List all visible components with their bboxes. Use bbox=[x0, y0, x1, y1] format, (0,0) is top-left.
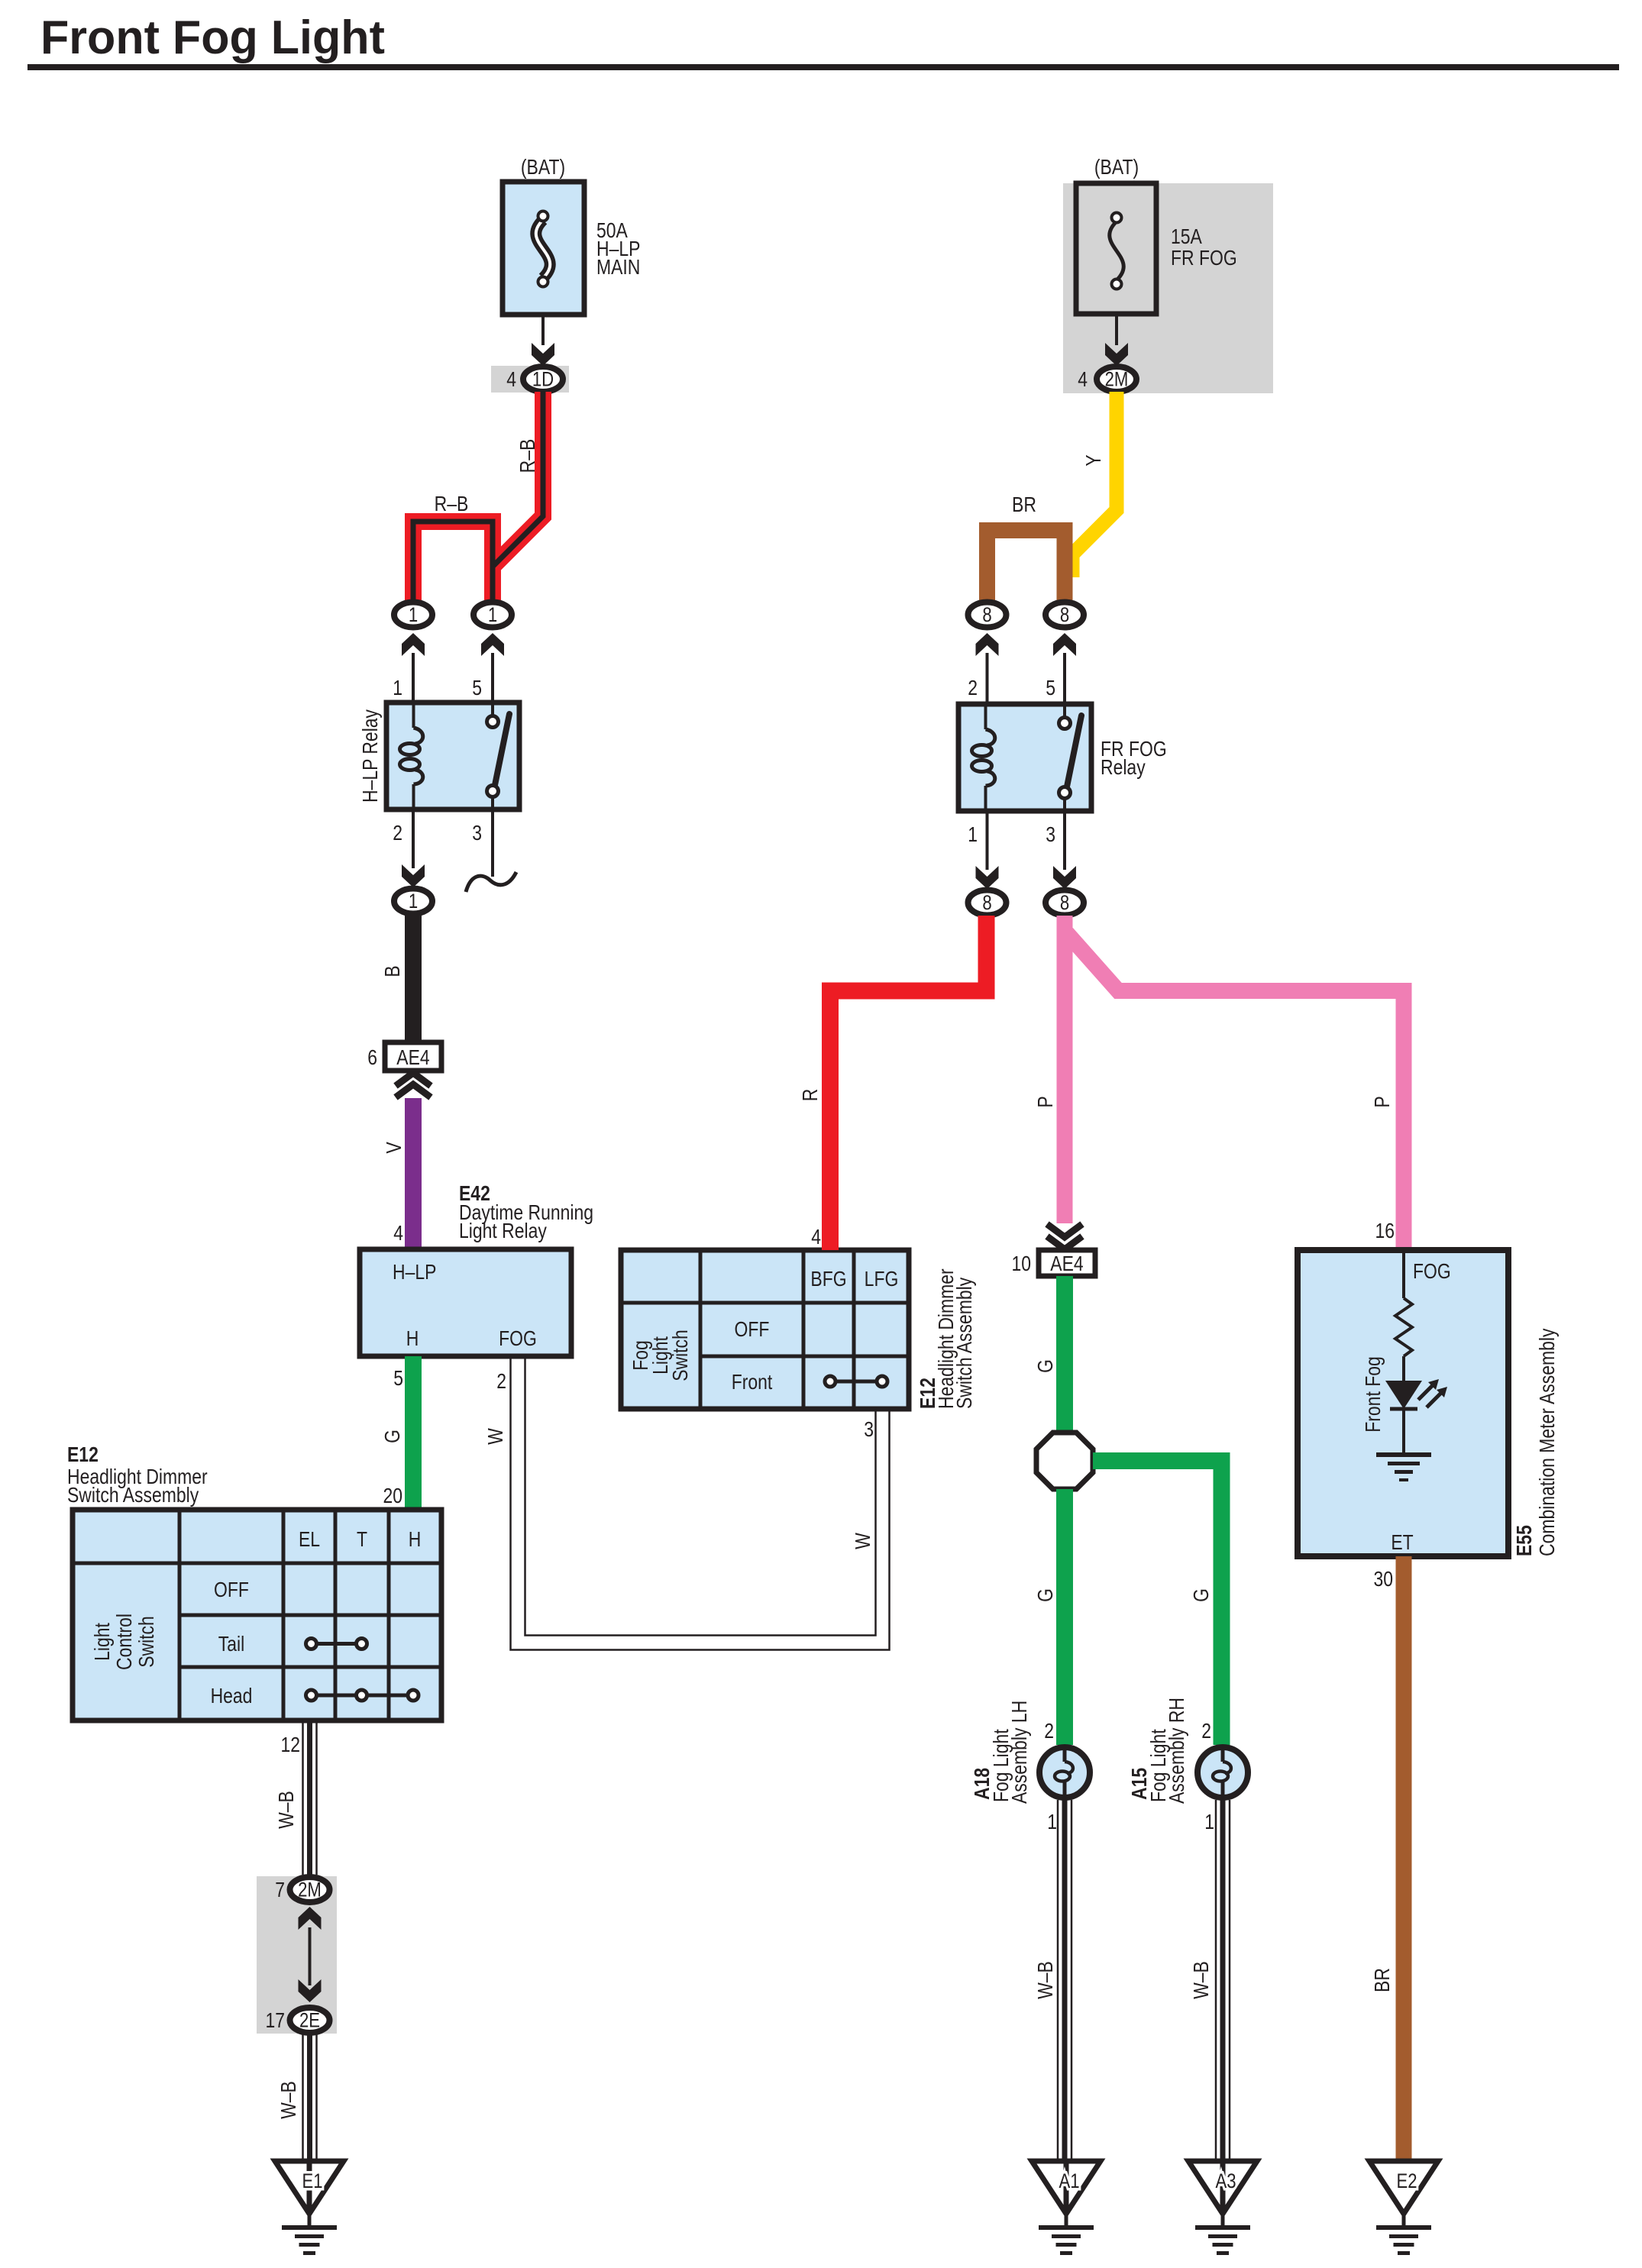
svg-text:12: 12 bbox=[280, 1733, 300, 1757]
svg-text:2: 2 bbox=[496, 1370, 506, 1394]
svg-text:5: 5 bbox=[393, 1367, 403, 1391]
svg-text:2: 2 bbox=[1044, 1720, 1054, 1743]
svg-text:1: 1 bbox=[488, 604, 497, 627]
svg-text:G: G bbox=[1190, 1588, 1214, 1602]
svg-text:7: 7 bbox=[275, 1879, 285, 1902]
svg-text:1: 1 bbox=[409, 604, 418, 627]
svg-text:1: 1 bbox=[968, 823, 978, 847]
svg-text:(BAT): (BAT) bbox=[521, 156, 565, 179]
svg-text:EL: EL bbox=[299, 1528, 320, 1552]
svg-text:BFG: BFG bbox=[810, 1268, 846, 1291]
svg-text:FOG: FOG bbox=[499, 1327, 537, 1351]
svg-text:G: G bbox=[1034, 1588, 1058, 1602]
svg-text:FR FOG: FR FOG bbox=[1171, 247, 1237, 270]
svg-text:E12: E12 bbox=[67, 1443, 99, 1467]
svg-text:FOG: FOG bbox=[1413, 1260, 1451, 1284]
svg-text:LFG: LFG bbox=[865, 1268, 899, 1291]
svg-text:1: 1 bbox=[1047, 1811, 1057, 1834]
svg-text:1: 1 bbox=[393, 677, 402, 700]
svg-text:Tail: Tail bbox=[218, 1633, 244, 1656]
svg-text:5: 5 bbox=[472, 677, 482, 700]
svg-text:OFF: OFF bbox=[214, 1578, 249, 1602]
svg-text:3: 3 bbox=[1046, 823, 1055, 847]
svg-text:H–LP: H–LP bbox=[393, 1261, 436, 1284]
svg-text:3: 3 bbox=[864, 1418, 874, 1442]
svg-text:Light: Light bbox=[91, 1623, 115, 1661]
svg-text:AE4: AE4 bbox=[396, 1046, 429, 1070]
svg-text:2: 2 bbox=[1201, 1720, 1211, 1743]
svg-text:16: 16 bbox=[1375, 1220, 1395, 1243]
svg-text:Assembly RH: Assembly RH bbox=[1165, 1698, 1189, 1804]
svg-text:E1: E1 bbox=[302, 2170, 322, 2193]
svg-text:A1: A1 bbox=[1059, 2170, 1079, 2193]
svg-text:W–B: W–B bbox=[275, 1791, 299, 1829]
svg-text:W–B: W–B bbox=[1034, 1961, 1058, 1999]
svg-text:4: 4 bbox=[1078, 368, 1088, 392]
svg-text:E2: E2 bbox=[1396, 2170, 1417, 2193]
svg-text:H–LP Relay: H–LP Relay bbox=[359, 709, 383, 803]
svg-text:1: 1 bbox=[1204, 1811, 1214, 1834]
svg-text:AE4: AE4 bbox=[1050, 1252, 1083, 1276]
svg-text:P: P bbox=[1371, 1096, 1395, 1107]
svg-text:8: 8 bbox=[982, 604, 991, 627]
svg-text:Switch Assembly: Switch Assembly bbox=[67, 1484, 199, 1507]
svg-text:Light Relay: Light Relay bbox=[459, 1220, 547, 1243]
svg-text:30: 30 bbox=[1373, 1568, 1393, 1591]
svg-text:BR: BR bbox=[1012, 493, 1036, 517]
svg-text:Switch Assembly: Switch Assembly bbox=[953, 1278, 977, 1409]
svg-text:2: 2 bbox=[968, 677, 978, 700]
svg-text:R–B: R–B bbox=[435, 493, 469, 516]
svg-text:G: G bbox=[1034, 1359, 1058, 1373]
svg-text:Assembly LH: Assembly LH bbox=[1008, 1701, 1032, 1804]
svg-text:17: 17 bbox=[265, 2009, 285, 2033]
svg-text:1: 1 bbox=[409, 890, 418, 913]
svg-text:T: T bbox=[357, 1528, 367, 1552]
svg-text:8: 8 bbox=[1060, 604, 1069, 627]
svg-text:H: H bbox=[406, 1327, 419, 1351]
svg-text:Control: Control bbox=[113, 1614, 137, 1670]
svg-text:E55: E55 bbox=[1513, 1525, 1537, 1556]
svg-text:B: B bbox=[381, 965, 405, 977]
svg-text:W: W bbox=[484, 1427, 508, 1444]
svg-text:P: P bbox=[1034, 1096, 1058, 1107]
svg-text:Head: Head bbox=[211, 1685, 253, 1708]
svg-text:Relay: Relay bbox=[1101, 756, 1146, 780]
svg-text:2: 2 bbox=[393, 822, 402, 845]
svg-text:6: 6 bbox=[367, 1046, 377, 1070]
svg-text:V: V bbox=[383, 1142, 406, 1153]
svg-text:20: 20 bbox=[383, 1485, 402, 1508]
svg-text:H: H bbox=[409, 1528, 422, 1552]
svg-text:8: 8 bbox=[1060, 892, 1069, 915]
svg-text:Switch: Switch bbox=[135, 1616, 159, 1668]
svg-text:Front Fog Light: Front Fog Light bbox=[40, 11, 385, 65]
svg-text:A3: A3 bbox=[1215, 2170, 1236, 2193]
svg-text:W–B: W–B bbox=[277, 2081, 301, 2119]
svg-text:BR: BR bbox=[1371, 1968, 1395, 1992]
svg-text:OFF: OFF bbox=[735, 1318, 770, 1342]
svg-text:4: 4 bbox=[811, 1226, 821, 1249]
svg-text:2E: 2E bbox=[299, 2010, 320, 2033]
svg-text:2M: 2M bbox=[1105, 369, 1129, 392]
svg-text:W–B: W–B bbox=[1190, 1961, 1214, 1999]
svg-text:2M: 2M bbox=[298, 1879, 322, 1902]
svg-text:ET: ET bbox=[1391, 1531, 1414, 1555]
svg-text:8: 8 bbox=[982, 892, 991, 915]
svg-text:Y: Y bbox=[1082, 454, 1106, 466]
svg-text:4: 4 bbox=[393, 1222, 403, 1245]
svg-text:15A: 15A bbox=[1171, 225, 1203, 249]
svg-text:5: 5 bbox=[1046, 677, 1055, 700]
svg-text:1D: 1D bbox=[532, 369, 554, 392]
svg-text:R–B: R–B bbox=[516, 439, 540, 473]
svg-text:Front Fog: Front Fog bbox=[1362, 1356, 1385, 1432]
svg-text:R: R bbox=[799, 1089, 823, 1102]
svg-text:Combination Meter Assembly: Combination Meter Assembly bbox=[1536, 1328, 1560, 1556]
svg-text:Front: Front bbox=[732, 1371, 773, 1394]
svg-text:W: W bbox=[852, 1532, 875, 1549]
svg-text:MAIN: MAIN bbox=[596, 256, 640, 279]
svg-text:3: 3 bbox=[472, 822, 482, 845]
svg-text:(BAT): (BAT) bbox=[1094, 156, 1139, 179]
svg-text:4: 4 bbox=[506, 368, 516, 392]
svg-text:Switch: Switch bbox=[669, 1329, 693, 1381]
svg-text:10: 10 bbox=[1011, 1252, 1031, 1276]
svg-text:G: G bbox=[381, 1430, 405, 1443]
